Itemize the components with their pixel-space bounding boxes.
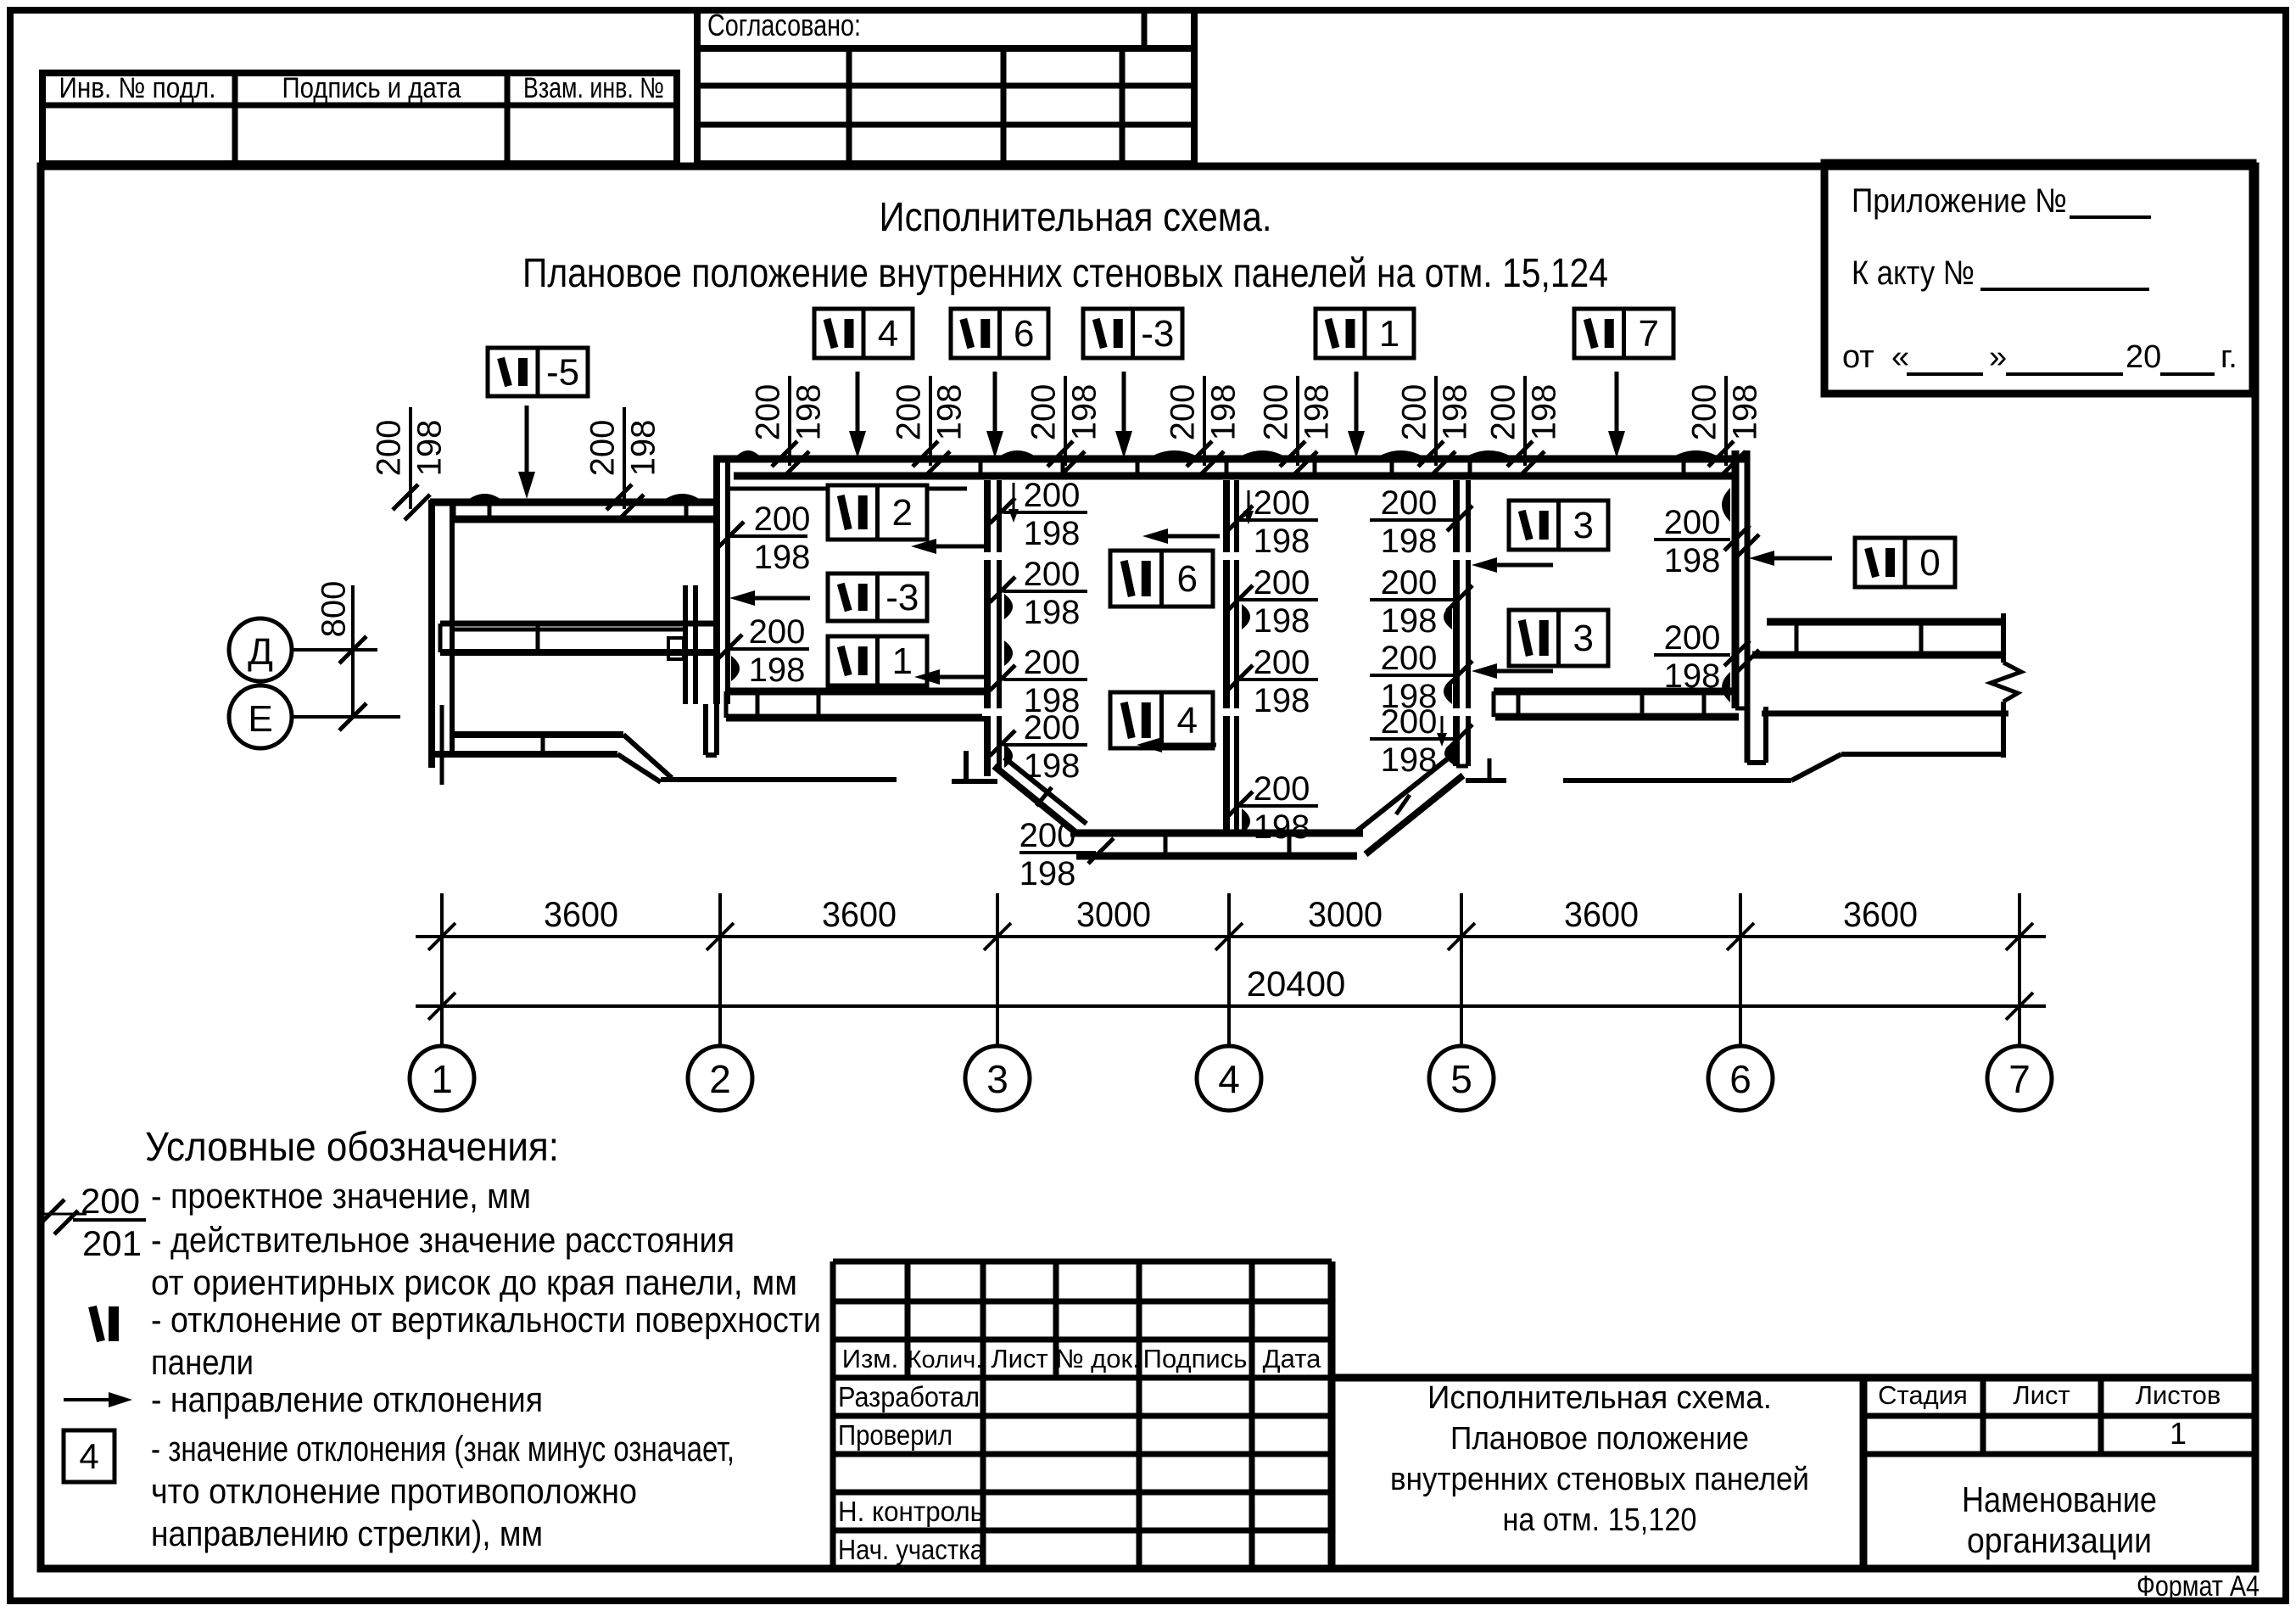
svg-text:Е: Е: [248, 698, 272, 740]
riska mark top wall #4: [1236, 450, 1289, 459]
svg-text:198: 198: [1205, 384, 1243, 441]
deviation arrow room 5-6 upper: [1492, 563, 1553, 568]
right wing top wall: [1767, 618, 2002, 626]
riska mark room 5-6 b: [1722, 672, 1730, 702]
deviation arrow room 2-3 lower: [935, 675, 986, 680]
svg-text:198: 198: [1254, 808, 1310, 846]
riska mark top wall #5: [1374, 450, 1427, 459]
svg-text:4: 4: [1218, 1057, 1240, 1101]
room 2-3 top wall panel line: [730, 487, 967, 491]
riska mark top wall #2: [996, 450, 1039, 459]
axis-2 wall lower panel: [683, 585, 688, 704]
axis Е circle: [229, 685, 292, 748]
deviation box 4: [814, 309, 913, 358]
svg-text:200: 200: [81, 1181, 140, 1221]
svg-text:»: »: [1989, 339, 2007, 375]
svg-text:200: 200: [1024, 709, 1081, 747]
svg-text:что отклонение противоположно: что отклонение противоположно: [151, 1471, 637, 1511]
riska mark room 4-5 right a: [1444, 604, 1452, 629]
svg-text:200: 200: [1396, 384, 1433, 441]
svg-text:3: 3: [986, 1057, 1008, 1101]
svg-text:Изм.: Изм.: [842, 1344, 898, 1373]
step below axis-5 wall: [1488, 758, 1492, 780]
axis Е line: [292, 715, 400, 719]
svg-text:200: 200: [1024, 477, 1081, 514]
deviation arrow room 3-4 upper: [1163, 534, 1220, 539]
svg-text:3600: 3600: [1564, 894, 1639, 934]
svg-text:2: 2: [709, 1057, 731, 1101]
axis circle 3: [965, 1046, 1030, 1110]
svg-text:198: 198: [1381, 602, 1438, 640]
svg-text:200: 200: [749, 613, 806, 651]
svg-text:- направление отклонения: - направление отклонения: [151, 1379, 543, 1419]
svg-text:3000: 3000: [1308, 894, 1383, 934]
svg-text:200: 200: [1020, 817, 1076, 854]
svg-text:6: 6: [1014, 313, 1034, 355]
svg-text:3: 3: [1573, 618, 1594, 659]
room 2-3 bottom wall: [726, 688, 987, 696]
left wing middle wall: [440, 621, 713, 627]
svg-text:198: 198: [1664, 542, 1721, 579]
svg-text:6: 6: [1729, 1057, 1751, 1101]
svg-text:Д: Д: [248, 631, 273, 673]
svg-text:Приложение №: Приложение №: [1852, 182, 2067, 220]
axis-2 wall: [713, 456, 720, 704]
svg-text:Лист: Лист: [991, 1344, 1047, 1373]
riska mark top wall #6: [1462, 450, 1516, 459]
axis circle 6: [1708, 1046, 1773, 1110]
axis Д circle: [229, 618, 292, 681]
deviation box 6: [951, 309, 1048, 358]
svg-text:Согласовано:: Согласовано:: [707, 8, 861, 42]
riska mark room 4-5 right b: [1444, 679, 1452, 704]
Согласовано table: [697, 10, 1194, 164]
svg-text:198: 198: [1024, 747, 1081, 785]
deviation box -5: [488, 348, 588, 396]
svg-text:1: 1: [431, 1057, 453, 1101]
axis-4 wall: [1223, 480, 1230, 830]
riska mark room 5-6 a: [1722, 488, 1730, 522]
svg-text:Исполнительная схема.: Исполнительная схема.: [1427, 1380, 1772, 1416]
svg-text:198: 198: [1381, 523, 1438, 560]
svg-text:от ориентирных рисок до края п: от ориентирных рисок до края панели, мм: [151, 1262, 797, 1302]
svg-text:5: 5: [1450, 1057, 1472, 1101]
svg-text:198: 198: [1066, 384, 1103, 441]
svg-text:200: 200: [1381, 640, 1438, 677]
svg-text:200: 200: [754, 501, 811, 538]
svg-text:198: 198: [1664, 657, 1721, 695]
deviation box 3 (room 5-6 lower): [1509, 610, 1608, 666]
riska mark room 3-4 a: [1004, 594, 1013, 619]
svg-text:3600: 3600: [544, 894, 618, 934]
arrow from box 6: [993, 372, 997, 436]
deviation box 0 (right wing): [1855, 538, 1955, 587]
svg-text:200: 200: [371, 420, 408, 477]
arrow from box -3: [1122, 372, 1126, 436]
title block stage grid: [1860, 1378, 1868, 1569]
svg-text:200: 200: [1664, 504, 1721, 541]
deviation box 3 (room 5-6 upper): [1509, 501, 1608, 550]
overall dimension line 20400: [416, 1004, 2046, 1008]
svg-text:Колич.: Колич.: [908, 1346, 983, 1373]
svg-text:3600: 3600: [1843, 894, 1918, 934]
svg-text:внутренних стеновых панелей: внутренних стеновых панелей: [1390, 1462, 1809, 1497]
svg-text:Формат А4: Формат А4: [2137, 1570, 2260, 1603]
title block grid: [830, 1261, 836, 1569]
axis-6 end wall: [1732, 450, 1740, 708]
svg-text:4: 4: [1177, 700, 1198, 741]
axis circle 1: [410, 1046, 474, 1110]
deviation box -3: [1083, 309, 1182, 358]
svg-text:0: 0: [1919, 542, 1940, 584]
svg-text:Наменование: Наменование: [1962, 1480, 2157, 1519]
svg-text:7: 7: [2008, 1057, 2031, 1101]
riska mark room 2-3: [731, 656, 740, 681]
svg-text:200: 200: [1254, 644, 1310, 681]
svg-text:198: 198: [1254, 602, 1310, 640]
svg-text:198: 198: [754, 539, 811, 576]
svg-text:198: 198: [1254, 682, 1310, 719]
riska mark room 4-5 left a: [1242, 604, 1250, 629]
riska mark left wing A: [465, 494, 505, 502]
svg-text:Плановое положение внутренних: Плановое положение внутренних стеновых п…: [522, 251, 1608, 296]
svg-text:Проверил: Проверил: [838, 1419, 952, 1451]
axis-3 wall: [984, 480, 991, 776]
svg-text:Подпись и дата: Подпись и дата: [282, 72, 461, 104]
svg-text:1: 1: [1379, 313, 1399, 355]
riska mark room 3-4 b: [1004, 640, 1013, 666]
svg-text:№ док.: № док.: [1055, 1344, 1139, 1373]
svg-text:К акту №: К акту №: [1852, 255, 1975, 292]
step below left wing: [623, 735, 672, 778]
deviation arrow room 3-4 lower: [1157, 743, 1216, 747]
svg-text:Плановое положение: Плановое положение: [1450, 1421, 1749, 1457]
riska mark room 4-5 right c: [1444, 742, 1453, 764]
dimension line spans: [416, 935, 2046, 938]
arrow from box 1: [1355, 372, 1359, 436]
svg-text:1: 1: [2170, 1416, 2187, 1451]
Приложение № box: [1824, 163, 2253, 394]
deviation arrow right wing: [1769, 557, 1832, 561]
svg-text:организации: организации: [1967, 1520, 2152, 1560]
svg-text:198: 198: [411, 420, 449, 477]
svg-text:201: 201: [82, 1223, 142, 1263]
svg-text:200: 200: [1254, 770, 1310, 808]
svg-text:200: 200: [1664, 619, 1721, 657]
axis circle 5: [1429, 1046, 1494, 1110]
svg-text:Условные обозначения:: Условные обозначения:: [145, 1125, 559, 1170]
svg-text:Н. контроль: Н. контроль: [838, 1496, 984, 1527]
svg-text:7: 7: [1639, 313, 1659, 355]
svg-text:4: 4: [79, 1436, 98, 1476]
axis circle 4: [1197, 1046, 1261, 1110]
svg-text:от: от: [1842, 339, 1874, 375]
riska mark left wing B: [661, 494, 704, 502]
svg-text:3600: 3600: [822, 894, 897, 934]
svg-text:200: 200: [1258, 384, 1295, 441]
axis extension lines: [440, 893, 444, 1045]
svg-text:направлению стрелки), мм: направлению стрелки), мм: [151, 1513, 543, 1553]
svg-text:198: 198: [1299, 384, 1336, 441]
svg-text:Подпись: Подпись: [1143, 1344, 1248, 1373]
riska mark top wall #7: [1669, 450, 1723, 459]
svg-text:Лист: Лист: [2013, 1380, 2070, 1410]
deviation box -3 (room 2-3): [828, 573, 927, 621]
svg-text:800: 800: [316, 581, 353, 638]
bay window bottom wall: [1070, 830, 1363, 837]
room 5-6 bottom wall: [1494, 688, 1734, 696]
arrow from box 4: [856, 372, 860, 436]
svg-text:3: 3: [1573, 505, 1594, 546]
deviation box 4 (room 3-4): [1110, 692, 1213, 748]
dimension 800 between Д and Е: [351, 585, 355, 717]
svg-text:200: 200: [1024, 644, 1081, 681]
svg-text:20400: 20400: [1247, 964, 1346, 1004]
svg-text:2: 2: [892, 492, 913, 534]
arrow from box 7: [1615, 372, 1619, 436]
svg-text:200: 200: [750, 384, 787, 441]
deviation box 7: [1574, 309, 1673, 358]
deviation arrow room 2-3 upper: [931, 545, 986, 549]
svg-text:- действительное значение расс: - действительное значение расстояния: [151, 1220, 735, 1260]
svg-text:20: 20: [2126, 339, 2161, 375]
svg-text:Взам. инв. №: Взам. инв. №: [523, 72, 664, 104]
svg-text:198: 198: [1020, 855, 1076, 892]
svg-text:-5: -5: [546, 352, 579, 394]
legend icon deviation value box: [64, 1430, 115, 1482]
svg-text:200: 200: [1025, 384, 1063, 441]
svg-text:«: «: [1891, 339, 1909, 375]
svg-text:г.: г.: [2221, 339, 2237, 375]
svg-text:198: 198: [749, 652, 806, 689]
svg-text:- проектное значение, мм: - проектное значение, мм: [151, 1176, 531, 1216]
svg-text:198: 198: [625, 420, 662, 477]
svg-text:200: 200: [1024, 556, 1081, 593]
svg-text:198: 198: [1024, 594, 1081, 631]
svg-text:200: 200: [891, 384, 928, 441]
axis-5 wall: [1453, 480, 1460, 766]
svg-text:200: 200: [1686, 384, 1723, 441]
svg-text:200: 200: [1485, 384, 1522, 441]
deviation box 1 (room 2-3): [828, 636, 927, 685]
top-left table: Инв. № подл. / Подпись и дата / Взам. инв. №: [42, 73, 677, 164]
arrow from box -5: [525, 406, 529, 477]
bay window right diagonal wall: [1366, 775, 1463, 854]
riska mark top wall #3: [1147, 450, 1202, 459]
svg-text:198: 198: [1526, 384, 1563, 441]
svg-text:Разработал: Разработал: [838, 1381, 980, 1412]
svg-text:200: 200: [1381, 564, 1438, 601]
svg-text:панели: панели: [151, 1342, 254, 1382]
legend icon direction arrow: [64, 1398, 109, 1401]
svg-text:200: 200: [1165, 384, 1202, 441]
axis circle 7: [1987, 1046, 2052, 1110]
svg-text:-3: -3: [885, 577, 919, 618]
svg-text:198: 198: [1381, 741, 1438, 779]
svg-text:4: 4: [878, 313, 898, 355]
deviation arrow room 5-6 lower: [1492, 669, 1553, 674]
left wing bottom wall: [454, 731, 623, 738]
svg-text:Стадия: Стадия: [1878, 1380, 1968, 1410]
svg-text:200: 200: [1381, 703, 1438, 741]
right wing bottom line: [1762, 711, 2008, 717]
svg-text:Нач. участка: Нач. участка: [838, 1534, 985, 1565]
svg-text:Дата: Дата: [1263, 1344, 1321, 1373]
deviation box 6 (room 3-4): [1110, 551, 1213, 607]
svg-text:200: 200: [1254, 484, 1310, 522]
riska mark room 4-5 left b: [1242, 808, 1250, 834]
axis Д line: [292, 648, 377, 652]
svg-text:Листов: Листов: [2136, 1380, 2221, 1410]
svg-text:198: 198: [1437, 384, 1474, 441]
riska mark room 3-4 c: [1004, 744, 1013, 768]
right wing break line: [2001, 613, 2006, 663]
svg-text:198: 198: [1727, 384, 1764, 441]
deviation box 2 (room 2-3): [828, 485, 927, 540]
svg-text:198: 198: [790, 384, 828, 441]
riska mark top wall #1: [734, 450, 763, 459]
svg-text:на отм. 15,120: на отм. 15,120: [1503, 1502, 1697, 1538]
svg-text:1: 1: [892, 640, 913, 682]
svg-text:198: 198: [931, 384, 969, 441]
svg-text:198: 198: [1024, 515, 1081, 552]
svg-text:Исполнительная схема.: Исполнительная схема.: [880, 195, 1272, 240]
svg-text:Инв. № подл.: Инв. № подл.: [59, 72, 216, 104]
axis-1 end wall: [428, 500, 435, 768]
svg-text:3000: 3000: [1076, 894, 1151, 934]
deviation box 1: [1316, 309, 1414, 358]
svg-text:198: 198: [1254, 523, 1310, 560]
svg-text:- значение отклонения (знак ми: - значение отклонения (знак минус означа…: [151, 1429, 735, 1468]
svg-text:-3: -3: [1141, 313, 1174, 355]
svg-text:200: 200: [1381, 484, 1438, 522]
central top wall: [713, 456, 1747, 463]
deviation arrow room 2-3 middle: [750, 596, 810, 601]
svg-text:6: 6: [1177, 558, 1198, 600]
legend icon verticality deviation: [92, 1306, 101, 1341]
left wing top wall: [430, 499, 713, 506]
axis circle 2: [688, 1046, 752, 1110]
svg-text:- отклонение от вертикальности: - отклонение от вертикальности поверхнос…: [151, 1300, 821, 1340]
bay window left diagonal wall: [994, 766, 1076, 833]
svg-text:200: 200: [1254, 564, 1310, 601]
svg-text:200: 200: [584, 420, 622, 477]
